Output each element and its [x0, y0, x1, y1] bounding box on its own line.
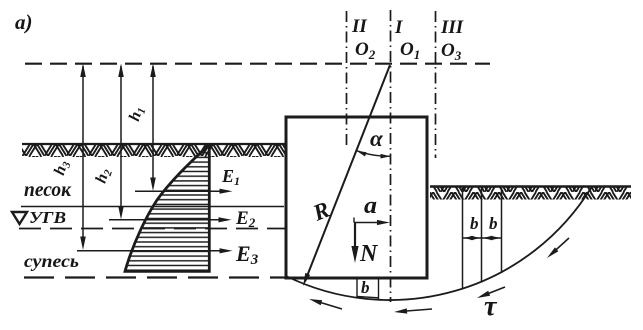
node: bottom dashed line: [24, 276, 285, 278]
node: E1 arrow: [220, 189, 233, 194]
svg-text:α: α: [370, 126, 384, 151]
node: angle alpha arc: [357, 151, 391, 156]
wire: h2 dimension line: [120, 66, 122, 215]
node: groundwater dashed line: [19, 228, 285, 230]
node: slip arrow 4: [314, 301, 342, 310]
svg-text:N: N: [359, 241, 379, 267]
node: slip arrow 2: [482, 287, 505, 296]
node: E3 arrow: [220, 248, 233, 253]
node: slip circle arc: [286, 188, 591, 300]
wire: E2 level line: [109, 219, 220, 221]
wire: sand layer boundary line: [21, 206, 284, 208]
wire: dimension a line: [353, 218, 355, 223]
wire: E1 level line: [135, 190, 221, 192]
node: slip arrow 3: [400, 309, 432, 312]
node: R arrowhead: [303, 273, 310, 286]
node: h3 bottom arrow: [80, 237, 86, 251]
node: pressure diagram (hatched): [125, 146, 209, 271]
node: axis I dash-dot line: [390, 10, 392, 302]
node: axis III dash-dot line: [435, 11, 437, 158]
node: right ground surface line: [430, 185, 631, 188]
node: left ground surface line: [22, 143, 286, 145]
svg-text:песок: песок: [24, 179, 72, 201]
node: axis II dash-dot line: [346, 11, 348, 146]
svg-text:УГВ: УГВ: [29, 208, 66, 227]
node: right ground hatching: [430, 188, 631, 200]
node: upper datum dashed line: [25, 63, 490, 65]
wire: radius R line: [306, 65, 391, 280]
wire: right b-b dimension line: [463, 237, 502, 239]
node: h2 top arrow: [118, 64, 124, 78]
wire: right b-b dimension verticals: [462, 188, 464, 289]
node: h1 bottom arrow: [150, 178, 156, 192]
wire: E3 level line: [77, 250, 221, 252]
node: h1 top arrow: [150, 64, 156, 78]
svg-text:II: II: [351, 16, 367, 37]
svg-text:a: a: [364, 193, 377, 219]
node: h2 bottom arrow: [118, 206, 124, 220]
svg-text:III: III: [440, 17, 464, 38]
svg-text:I: I: [394, 17, 403, 38]
svg-text:b: b: [489, 214, 498, 233]
wire: b dimension under foundation: [356, 279, 358, 298]
node: left ground hatching: [22, 145, 286, 157]
node: groundwater level symbol: [12, 212, 27, 224]
svg-text:τ: τ: [484, 291, 498, 322]
wire: h3 dimension line: [82, 66, 84, 245]
node: a arrow: [377, 220, 390, 225]
foundation block: [286, 117, 427, 278]
svg-text:а): а): [15, 10, 33, 34]
svg-text:супесь: супесь: [24, 251, 79, 271]
node: h3 top arrow: [80, 64, 86, 78]
node: E2 arrow: [219, 217, 232, 222]
svg-text:b: b: [361, 278, 370, 297]
wire: h1 dimension line: [152, 66, 154, 186]
svg-text:b: b: [470, 214, 479, 233]
node: slip arrow 1: [551, 238, 569, 254]
node: force N arrow: [354, 223, 356, 251]
